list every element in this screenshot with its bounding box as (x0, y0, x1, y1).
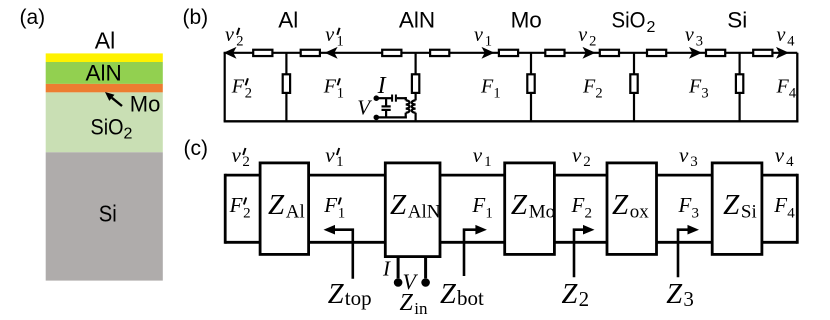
svg-text:3: 3 (701, 85, 708, 101)
svg-text:Z: Z (723, 189, 740, 221)
series resistor Si-2 (753, 50, 772, 56)
arrow v4 (right) (776, 47, 789, 59)
arrow Z_3 (bent, pointing right) (678, 230, 695, 278)
svg-text:2: 2 (243, 206, 251, 222)
arrow Z_2 (bent, pointing right) (574, 230, 591, 278)
svg-text:4: 4 (786, 154, 794, 170)
svg-text:SiO: SiO (91, 114, 124, 139)
layer AlN (green) (46, 62, 163, 84)
shunt capacitor C0: bottom plate (382, 109, 391, 111)
svg-text:F: F (582, 75, 596, 97)
svg-text:(b): (b) (183, 6, 209, 29)
block Z_ox (607, 163, 657, 255)
rail: left end cap (224, 174, 227, 244)
series resistor Al-2 (301, 50, 320, 56)
arrow Z_bot (bent, pointing right) (464, 230, 483, 276)
svg-text:bot: bot (457, 286, 484, 310)
arrow Z_top (bent, pointing left) (328, 230, 353, 279)
svg-text:AlN: AlN (399, 8, 435, 33)
port stub right under Z_AlN (424, 257, 427, 278)
shunt branch Si: wire (738, 53, 740, 74)
port dot right (421, 278, 430, 287)
svg-text:v: v (572, 143, 582, 167)
arrow v1 (right) (482, 47, 495, 59)
layer Mo (orange) (46, 84, 163, 93)
svg-text:2: 2 (589, 33, 596, 49)
svg-text:ox: ox (630, 202, 650, 223)
svg-text:Mo: Mo (529, 202, 555, 223)
svg-text:2: 2 (583, 154, 591, 170)
svg-text:F: F (231, 75, 245, 97)
svg-text:1: 1 (337, 85, 344, 101)
svg-text:v: v (679, 143, 689, 167)
svg-text:top: top (345, 286, 372, 310)
transformer secondary winding (acoustic side) (415, 94, 417, 101)
shunt branch AlN: wire above resistor (415, 53, 417, 74)
svg-text:v: v (578, 24, 587, 46)
arrow to Mo layer (112, 98, 122, 106)
svg-text:2: 2 (647, 19, 656, 36)
source terminal dot (bottom) (374, 115, 380, 121)
svg-text:F: F (688, 75, 702, 97)
svg-text:v: v (225, 24, 234, 46)
series capacitor plate 1 (391, 95, 393, 102)
svg-text:v: v (777, 24, 786, 46)
shunt capacitor C0: bottom lead (385, 110, 387, 117)
svg-text:Z: Z (328, 279, 345, 310)
series resistor SiO2-2 (647, 50, 666, 56)
wire: source loop bottom (375, 116, 407, 118)
layer Al (yellow) (46, 53, 163, 62)
series resistor AlN-1 (382, 50, 401, 56)
svg-text:4: 4 (787, 206, 795, 222)
svg-text:Z: Z (440, 279, 457, 310)
arrow v2 (right) (583, 47, 596, 59)
svg-text:Z: Z (390, 189, 407, 221)
svg-text:F: F (571, 193, 585, 217)
svg-text:AlN: AlN (85, 61, 121, 86)
svg-text:3: 3 (683, 287, 694, 311)
svg-text:3: 3 (692, 206, 700, 222)
shunt resistor Si (736, 74, 743, 93)
layer SiO2 (light green) (46, 92, 163, 152)
svg-text:Z: Z (268, 189, 285, 221)
series resistor Mo-1 (499, 50, 518, 56)
svg-text:F: F (323, 75, 337, 97)
svg-text:Si: Si (727, 8, 747, 33)
svg-text:1: 1 (336, 154, 344, 170)
svg-text:F: F (471, 193, 485, 217)
svg-text:1: 1 (485, 206, 493, 222)
svg-text:F: F (773, 193, 787, 217)
source terminal dot (top, current I) (374, 95, 380, 101)
rail: top (225, 174, 797, 177)
svg-text:v: v (325, 24, 334, 46)
shunt resistor Al (283, 74, 290, 93)
svg-text:Al: Al (278, 8, 298, 33)
svg-text:2: 2 (585, 206, 593, 222)
svg-text:Mo: Mo (511, 8, 542, 33)
svg-text:F: F (480, 75, 494, 97)
svg-text:Z: Z (511, 189, 528, 221)
wire: top acoustic line (224, 52, 798, 54)
shunt resistor SiO2 (630, 74, 637, 93)
svg-text:I: I (382, 257, 391, 281)
svg-text:v: v (685, 24, 694, 46)
rail: right end cap (796, 174, 799, 244)
svg-text:v: v (473, 143, 483, 167)
arrow v1' (left) (325, 47, 338, 59)
wire: bottom return line (224, 120, 799, 122)
svg-text:Z: Z (666, 279, 683, 310)
svg-text:Z: Z (400, 290, 414, 316)
rail: bottom (225, 241, 797, 244)
svg-text:2: 2 (595, 85, 602, 101)
svg-text:1: 1 (484, 154, 492, 170)
shunt resistor Mo (527, 74, 534, 93)
svg-text:2: 2 (242, 154, 250, 170)
shunt resistor AlN (412, 74, 419, 93)
arrow v2' (left, at left end) (224, 47, 237, 59)
shunt branch Al: wire (285, 53, 287, 74)
svg-text:1: 1 (485, 33, 492, 49)
series resistor AlN-2 (430, 50, 449, 56)
svg-text:1: 1 (338, 206, 346, 222)
shunt capacitor C0: top lead (385, 98, 387, 106)
shunt branch Mo: wire (530, 53, 532, 74)
port dot left (394, 278, 403, 287)
svg-text:Si: Si (741, 202, 757, 223)
series resistor Al-1 (253, 50, 272, 56)
series capacitor plate 2 (395, 95, 397, 102)
svg-text:3: 3 (690, 154, 698, 170)
svg-text:Z: Z (612, 189, 629, 221)
svg-text:Z: Z (562, 279, 579, 310)
svg-text:F: F (323, 193, 337, 217)
svg-text:2: 2 (245, 85, 252, 101)
svg-text:4: 4 (787, 33, 795, 49)
svg-text:I: I (377, 73, 387, 99)
svg-text:(c): (c) (184, 137, 209, 160)
shunt branch SiO2: wire (633, 53, 635, 74)
series resistor Si-1 (706, 50, 725, 56)
wire: right end vertical (796, 53, 798, 123)
block Z_Si (712, 163, 762, 255)
block Z_AlN (385, 163, 440, 257)
transformer primary winding (405, 97, 407, 100)
svg-text:F: F (229, 193, 243, 217)
svg-text:(a): (a) (20, 6, 46, 29)
svg-text:SiO: SiO (612, 8, 646, 33)
svg-text:AlN: AlN (408, 202, 441, 223)
svg-text:2: 2 (236, 33, 243, 49)
svg-text:Si: Si (99, 201, 117, 227)
block Z_Al (260, 163, 309, 255)
svg-text:2: 2 (579, 287, 590, 311)
svg-text:v: v (325, 143, 335, 167)
svg-text:Al: Al (286, 202, 305, 223)
layer Si (gray) (46, 152, 163, 280)
wire: source loop top (376, 97, 391, 99)
svg-text:v: v (232, 143, 242, 167)
shunt capacitor C0: top plate (382, 105, 391, 107)
svg-text:V: V (357, 96, 372, 120)
svg-text:v: v (775, 143, 785, 167)
svg-text:2: 2 (124, 126, 133, 143)
wire: left end vertical (224, 53, 226, 122)
port stub left under Z_AlN (397, 257, 400, 278)
svg-text:F: F (678, 193, 692, 217)
wire: source loop top right (397, 97, 407, 99)
block Z_Mo (505, 163, 555, 255)
svg-text:v: v (474, 24, 483, 46)
svg-text:4: 4 (789, 85, 797, 101)
svg-text:1: 1 (493, 85, 500, 101)
svg-text:Al: Al (95, 28, 115, 54)
arrow v3 (right) (689, 47, 702, 59)
svg-text:3: 3 (696, 33, 703, 49)
series resistor Mo-2 (545, 50, 564, 56)
svg-text:F: F (776, 75, 790, 97)
series resistor SiO2-1 (600, 50, 619, 56)
svg-text:1: 1 (337, 33, 344, 49)
svg-text:Mo: Mo (130, 92, 161, 117)
svg-text:in: in (414, 299, 428, 318)
